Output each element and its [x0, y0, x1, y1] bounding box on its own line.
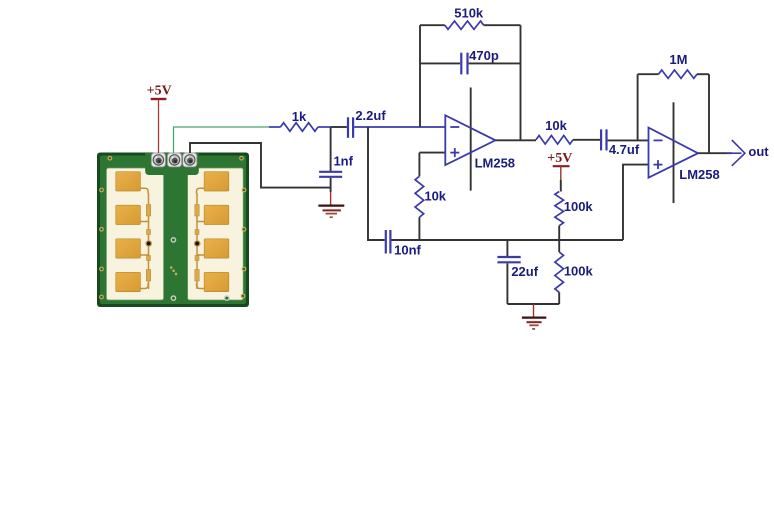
wire: 1M top rail right segment — [697, 73, 709, 75]
module pin pads (GND / OUT / VCC) — [151, 153, 196, 167]
svg-text:10nf: 10nf — [394, 242, 421, 257]
wire: signal node down to 10nf (left leg) — [368, 127, 385, 240]
+5V supply symbol (module) — [147, 84, 172, 99]
svg-text:out: out — [748, 144, 769, 159]
wire: node stub down from 1k/2.2uf node to 1nf — [330, 127, 332, 172]
svg-text:10k: 10k — [424, 189, 446, 204]
wire: bottom rail 22uf to 100k — [507, 303, 559, 305]
wire: 2.2uf to op-amp U1 inverting input (blue) — [354, 126, 445, 128]
wire: module pin 2 signal out (green) — [174, 127, 270, 153]
wire: +5V to 100k (red then gray) — [560, 166, 562, 180]
resistor 1k — [269, 109, 331, 131]
svg-text:100k: 100k — [564, 199, 594, 214]
output arrow and label — [727, 140, 769, 166]
capacitor 10nf — [386, 230, 422, 257]
wire: U2 power stub vertical — [673, 102, 675, 203]
wire: U1 power stub vertical — [470, 88, 472, 191]
svg-text:22uf: 22uf — [511, 264, 538, 279]
capacitor 2.2uf — [348, 108, 386, 138]
wire: feedback left leg (U1) — [419, 25, 421, 127]
svg-text:10k: 10k — [545, 118, 567, 133]
wire: 1M top rail left segment — [638, 73, 659, 75]
svg-text:470p: 470p — [469, 48, 499, 63]
wire: 470p row left segment — [420, 62, 460, 64]
wire: bias rail up to U2 non-inverting input — [623, 165, 649, 240]
capacitor 1nf — [319, 154, 354, 177]
wire: 1M feedback right leg down to U2 output — [708, 74, 710, 153]
wire: U1 output — [495, 139, 536, 141]
wire: feedback top rail to 510k — [420, 24, 445, 26]
wire: module pin 3 ground (black) — [190, 143, 331, 188]
wire: 1k to 2.2uf node — [331, 126, 347, 128]
wire: bias rail horizontal — [419, 239, 623, 241]
resistor 10k (interstage) — [536, 118, 573, 144]
wire: 10k to 4.7uf — [573, 139, 600, 141]
wire: +5V to module pin 1 (red) — [158, 99, 160, 153]
resistor 510k (U1 feedback) — [445, 6, 484, 30]
resistor 1M (U2 feedback) — [659, 52, 698, 78]
doppler radar PCB module — [97, 153, 249, 308]
ground (input filter) — [318, 206, 344, 218]
wire: U2 output — [698, 152, 732, 154]
op-amp U2 LM258 — [649, 128, 720, 183]
capacitor 4.7uf — [601, 129, 640, 156]
wire: 10k to U1 non-inverting input — [419, 152, 445, 154]
capacitor 22uf — [497, 240, 538, 304]
+5V supply symbol (bias) — [547, 151, 572, 166]
resistor 10k (input bias) — [415, 153, 447, 240]
svg-text:+5V: +5V — [147, 84, 172, 99]
op-amp U1 LM258 — [445, 115, 515, 170]
svg-text:LM258: LM258 — [679, 167, 719, 182]
svg-text:100k: 100k — [564, 264, 594, 279]
capacitor 470p (U1 feedback) — [461, 48, 499, 74]
wire: 1nf to ground — [330, 178, 332, 192]
svg-text:LM258: LM258 — [475, 155, 515, 170]
svg-text:1nf: 1nf — [333, 154, 353, 169]
svg-text:510k: 510k — [454, 6, 484, 21]
svg-text:1M: 1M — [669, 52, 687, 67]
wire: 470p row right segment — [469, 62, 521, 64]
svg-text:4.7uf: 4.7uf — [609, 142, 640, 157]
wire: 1M feedback left leg — [637, 74, 639, 140]
wire: 10nf to bias rail node — [392, 239, 420, 241]
svg-text:2.2uf: 2.2uf — [355, 108, 386, 123]
wire: feedback right leg down to U1 output — [520, 25, 522, 140]
svg-text:1k: 1k — [292, 109, 307, 124]
wire: bottom rail to ground (red) — [533, 304, 535, 317]
resistor 100k (upper bias divider) — [555, 192, 594, 241]
ground (bias divider) — [522, 318, 546, 329]
wire: 4.7uf to U2 inverting input — [608, 139, 649, 141]
svg-text:+5V: +5V — [547, 151, 572, 166]
resistor 100k (lower bias divider) — [555, 240, 594, 304]
wire: 510k to feedback right leg — [484, 24, 521, 26]
